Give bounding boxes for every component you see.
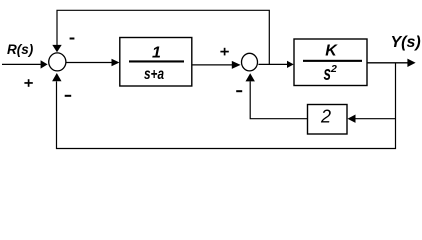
svg-text:R(s): R(s) [7,42,34,57]
svg-text:2: 2 [330,63,337,75]
svg-text:1: 1 [152,44,161,61]
svg-text:s+a: s+a [144,66,164,83]
svg-text:s: s [324,63,332,85]
svg-text:2: 2 [320,107,331,127]
svg-text:K: K [325,43,338,60]
svg-text:Y(s): Y(s) [391,34,421,51]
